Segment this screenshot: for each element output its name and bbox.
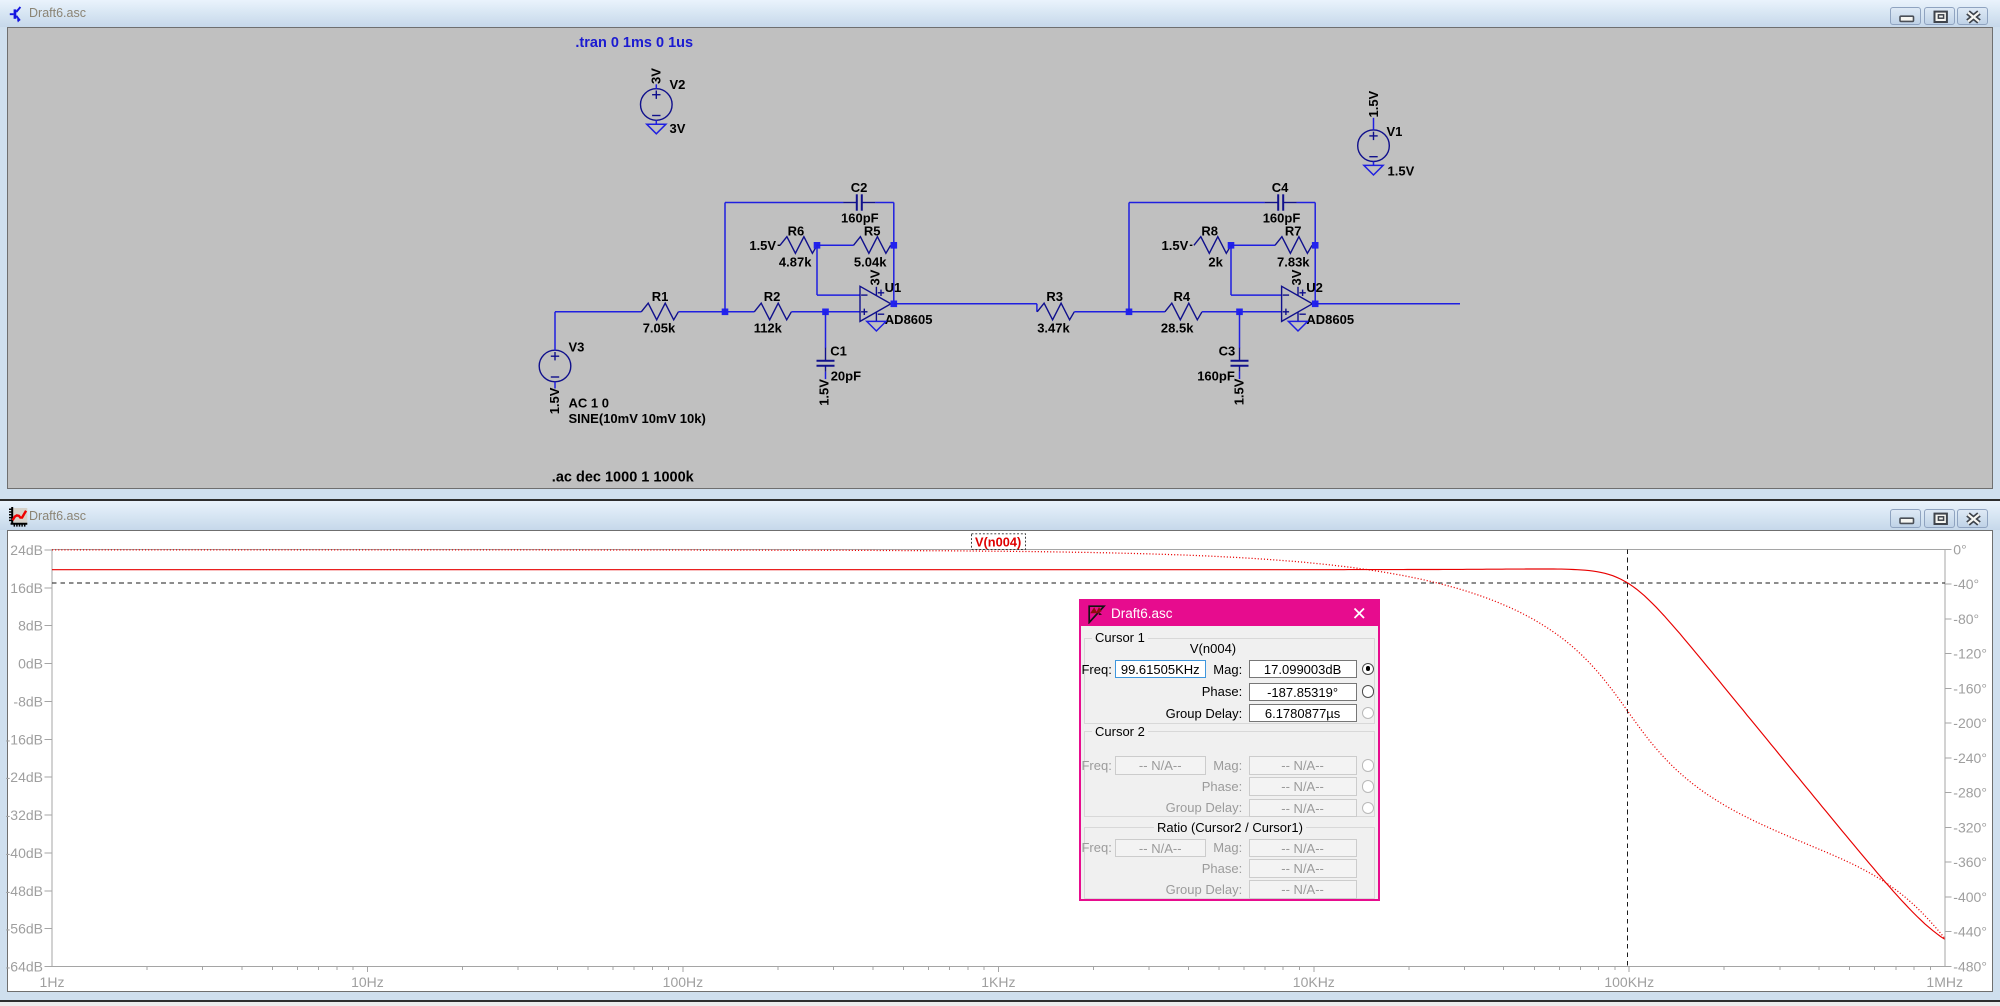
svg-text:0dB: 0dB [18,656,43,672]
wire node A up to feedback loop [724,202,726,311]
window bottom edge [0,1000,2000,1002]
svg-text:-8dB: -8dB [13,693,43,709]
svg-text:1.5V: 1.5V [816,378,831,405]
resistor R5 [854,223,891,269]
node R5 right at feedback vertical [891,242,898,249]
net flag 1.5V below C3 [1231,378,1246,405]
wire R2 to U1 noninverting input [791,310,860,312]
wire feedback2 right vertical to U2 output [1314,202,1316,303]
svg-text:112k: 112k [754,320,783,335]
voltage source V1 1.5V [1358,90,1415,178]
svg-text:-32dB: -32dB [6,807,43,823]
svg-text:-40dB: -40dB [6,845,43,861]
svg-text:1Hz: 1Hz [40,974,65,990]
svg-text:3V: 3V [670,121,686,136]
bottom frequency axis ticks and labels [40,967,1963,991]
svg-text:U2: U2 [1306,280,1323,295]
svg-text:-16dB: -16dB [6,731,43,747]
svg-text:C2: C2 [851,180,868,195]
spice directive .tran [575,35,693,51]
svg-text:R8: R8 [1201,223,1218,238]
svg-text:-80°: -80° [1953,611,1979,627]
svg-text:8dB: 8dB [18,618,43,634]
wire node B down to C1 [825,311,827,347]
net flag 1.5V at R6 [749,238,780,253]
wire R1 to R2 with node [678,310,754,312]
wire V3 to R1 [555,311,641,349]
wire V1 bottom stub [1373,161,1375,165]
svg-text:3V: 3V [649,67,664,83]
net flag 1.5V below C1 [816,378,831,405]
wire node C up to feedback loop 2 [1128,202,1130,311]
svg-text:4.87k: 4.87k [779,254,812,269]
voltage source V3 (AC 1 0, SINE) [539,339,706,425]
svg-text:AC 1 0: AC 1 0 [569,395,609,410]
svg-text:-64dB: -64dB [6,959,43,975]
svg-text:1.5V: 1.5V [1388,163,1415,178]
svg-text:1.5V: 1.5V [749,238,776,253]
wire V2 top stub [655,84,657,88]
wire C2 to right vertical [875,201,894,203]
svg-text:16dB: 16dB [10,580,43,596]
svg-text:100Hz: 100Hz [663,974,703,990]
svg-text:10KHz: 10KHz [1293,974,1335,990]
svg-text:1.5V: 1.5V [547,387,562,414]
left dB axis ticks and labels [6,542,52,975]
resistor R7 [1275,223,1312,269]
svg-text:5.04k: 5.04k [854,254,887,269]
svg-text:.tran 0 1ms 0 1us: .tran 0 1ms 0 1us [575,35,693,51]
wire R8 to R7 [1231,244,1275,246]
svg-text:7.05k: 7.05k [643,320,676,335]
node C junction (R3/R4/feedback2) [1126,308,1133,315]
node R8/R7 junction [1228,242,1235,249]
wire feedback right vertical to U1 output [893,202,895,303]
svg-text:V3: V3 [569,339,585,354]
svg-text:C4: C4 [1272,180,1289,195]
svg-text:-400°: -400° [1953,889,1987,905]
svg-text:R4: R4 [1174,289,1191,304]
wire R4 to U2 noninverting input [1202,310,1282,312]
svg-text:-320°: -320° [1953,819,1987,835]
resistor R3 [1037,289,1074,335]
svg-text:-56dB: -56dB [6,921,43,937]
voltage source V2 3V [641,67,686,135]
capacitor C1 [817,343,862,383]
svg-text:1.5V: 1.5V [1162,238,1189,253]
wire C1 bottom flag stub [825,371,827,378]
wire R3 to R4 [1074,310,1165,312]
svg-text:-440°: -440° [1953,924,1987,940]
svg-text:SINE(10mV 10mV 10k): SINE(10mV 10mV 10k) [569,410,706,425]
capacitor C4 [1263,180,1301,226]
node U1 output [891,300,898,307]
svg-text:7.83k: 7.83k [1277,254,1310,269]
wire V3 bottom flag stub [554,381,556,388]
net flag 1.5V at R8 [1162,238,1193,253]
svg-text:V1: V1 [1387,124,1403,139]
svg-text:-200°: -200° [1953,715,1987,731]
resistor R6 [779,223,817,269]
node U2 output [1312,300,1319,307]
resistor R2 [754,289,792,335]
spice directive .ac [552,469,695,485]
svg-text:1.5V: 1.5V [1366,90,1381,117]
svg-text:V2: V2 [670,77,686,92]
node D junction (R4/C3/U2+) [1236,308,1243,315]
node B junction (R2/C1/U1+) [822,308,829,315]
svg-text:R2: R2 [764,289,781,304]
svg-text:-360°: -360° [1953,854,1987,870]
cursor 1 crosshair dashed lines [52,549,1945,966]
svg-text:-48dB: -48dB [6,883,43,899]
svg-text:V(n004): V(n004) [975,535,1021,550]
plot axes box [52,549,1945,966]
svg-text:3V: 3V [1289,269,1304,285]
svg-text:-24dB: -24dB [6,769,43,785]
svg-text:U1: U1 [885,280,902,295]
svg-text:0°: 0° [1953,541,1966,557]
ground below V2 [647,124,666,134]
wire C4 to right vertical 2 [1297,201,1316,203]
op-amp U1 AD8605 [860,269,933,327]
svg-text:-160°: -160° [1953,680,1987,696]
svg-text:R3: R3 [1046,289,1063,304]
wire U1 output to R3 (with jog) [894,303,1037,311]
ground at U1 V- pin [867,321,886,331]
V(n004) magnitude curve (solid red) [52,569,1945,939]
svg-text:3V: 3V [868,269,883,285]
trace label V(n004) with selection box [972,534,1026,550]
svg-text:R1: R1 [652,289,669,304]
svg-text:160pF: 160pF [1197,368,1235,383]
svg-text:1MHz: 1MHz [1926,974,1963,990]
svg-text:-480°: -480° [1953,959,1987,975]
op-amp U2 AD8605 [1282,269,1355,327]
capacitor C2 [841,180,879,226]
svg-text:AD8605: AD8605 [1306,312,1354,327]
svg-text:1KHz: 1KHz [981,974,1015,990]
svg-text:-240°: -240° [1953,750,1987,766]
svg-text:20pF: 20pF [831,368,861,383]
cursor dialog window Draft6.asc [1079,599,1380,901]
separator between windows [0,499,2000,501]
schematic window Draft6.asc [0,0,2000,27]
wire feedback top left to C2 [725,201,843,203]
svg-text:100KHz: 100KHz [1604,974,1654,990]
node R7 right at feedback2 vertical [1312,242,1319,249]
svg-text:28.5k: 28.5k [1161,320,1194,335]
capacitor C3 [1197,343,1248,383]
resistor R4 [1161,289,1202,335]
ground below V1 [1364,165,1383,175]
ground at U2 V- pin [1288,321,1307,331]
svg-text:3.47k: 3.47k [1037,320,1070,335]
V(n004) phase curve (dotted red) [52,550,1945,938]
waveform window Draft6.asc [0,501,2000,530]
wire V1 top stub [1373,117,1375,129]
wire U2 output to the right [1315,302,1460,304]
node R6/R5 junction [814,242,821,249]
svg-text:-280°: -280° [1953,785,1987,801]
svg-text:-120°: -120° [1953,646,1987,662]
svg-text:R7: R7 [1285,223,1302,238]
resistor R1 [641,289,678,335]
wire R6/R5 node down to U1 inverting input [817,245,860,295]
node A junction (R1/R2/feedback) [722,308,729,315]
wire R6 to R5 [817,244,854,246]
wire C3 bottom flag stub [1239,371,1241,378]
svg-text:.ac dec 1000 1 1000k: .ac dec 1000 1 1000k [552,469,695,485]
svg-text:R6: R6 [788,223,805,238]
svg-text:2k: 2k [1208,254,1223,269]
svg-text:AD8605: AD8605 [885,312,933,327]
svg-text:R5: R5 [864,223,881,238]
right phase axis ticks and labels [1945,541,1987,974]
svg-text:1.5V: 1.5V [1231,378,1246,405]
svg-text:10Hz: 10Hz [351,974,384,990]
svg-text:C1: C1 [830,343,847,358]
wire R8/R7 node down to U2 inverting input [1231,245,1282,295]
svg-text:-40°: -40° [1953,576,1979,592]
resistor R8 [1194,223,1231,269]
wire node D down to C3 [1239,311,1241,347]
wire V2 bottom stub [655,120,657,124]
wire feedback2 top left to C4 [1129,201,1265,203]
svg-text:C3: C3 [1219,343,1236,358]
svg-text:24dB: 24dB [10,542,43,558]
